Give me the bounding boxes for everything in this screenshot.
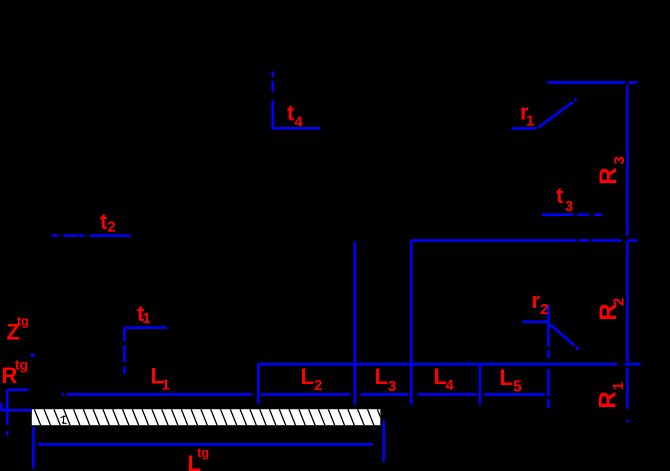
- r1 leader diagonal: [538, 99, 576, 128]
- dashed vertical x=548.5: [547, 305, 550, 408]
- profile line at y=240: [411, 239, 637, 242]
- Ltg dimension line: [38, 443, 373, 446]
- top profile line at y=82: [547, 81, 638, 84]
- r2 leader diagonal: [551, 325, 579, 350]
- t3 dashed line: [542, 213, 602, 216]
- t1 corner and dashed vertical: [125, 328, 168, 374]
- r2 short line: [522, 320, 547, 323]
- Ltg left extension line: [32, 427, 35, 469]
- hatched bar (section of part): [24, 408, 384, 426]
- dimension line at y=364: [258, 363, 640, 366]
- Rtg bracket: horizontal y=390: [7, 388, 28, 391]
- vertical line x=411: [410, 240, 413, 404]
- bar-top line left of bar: [1, 403, 32, 410]
- Ltg right extension line: [382, 421, 385, 462]
- tick x=258: [257, 363, 260, 404]
- Rtg bracket vertical x=7: [6, 390, 9, 435]
- tick x=480: [479, 364, 482, 405]
- t2 dashed line: [52, 234, 131, 237]
- r1 short line: [512, 127, 537, 130]
- dimension line at y=394 (L1..L5): [62, 393, 545, 396]
- right vertical extension line x=627: [626, 85, 629, 422]
- t4 dashed vertical and corner: [273, 72, 321, 130]
- Ztg leader dot: [31, 353, 34, 356]
- vertical line x=355: [354, 242, 357, 405]
